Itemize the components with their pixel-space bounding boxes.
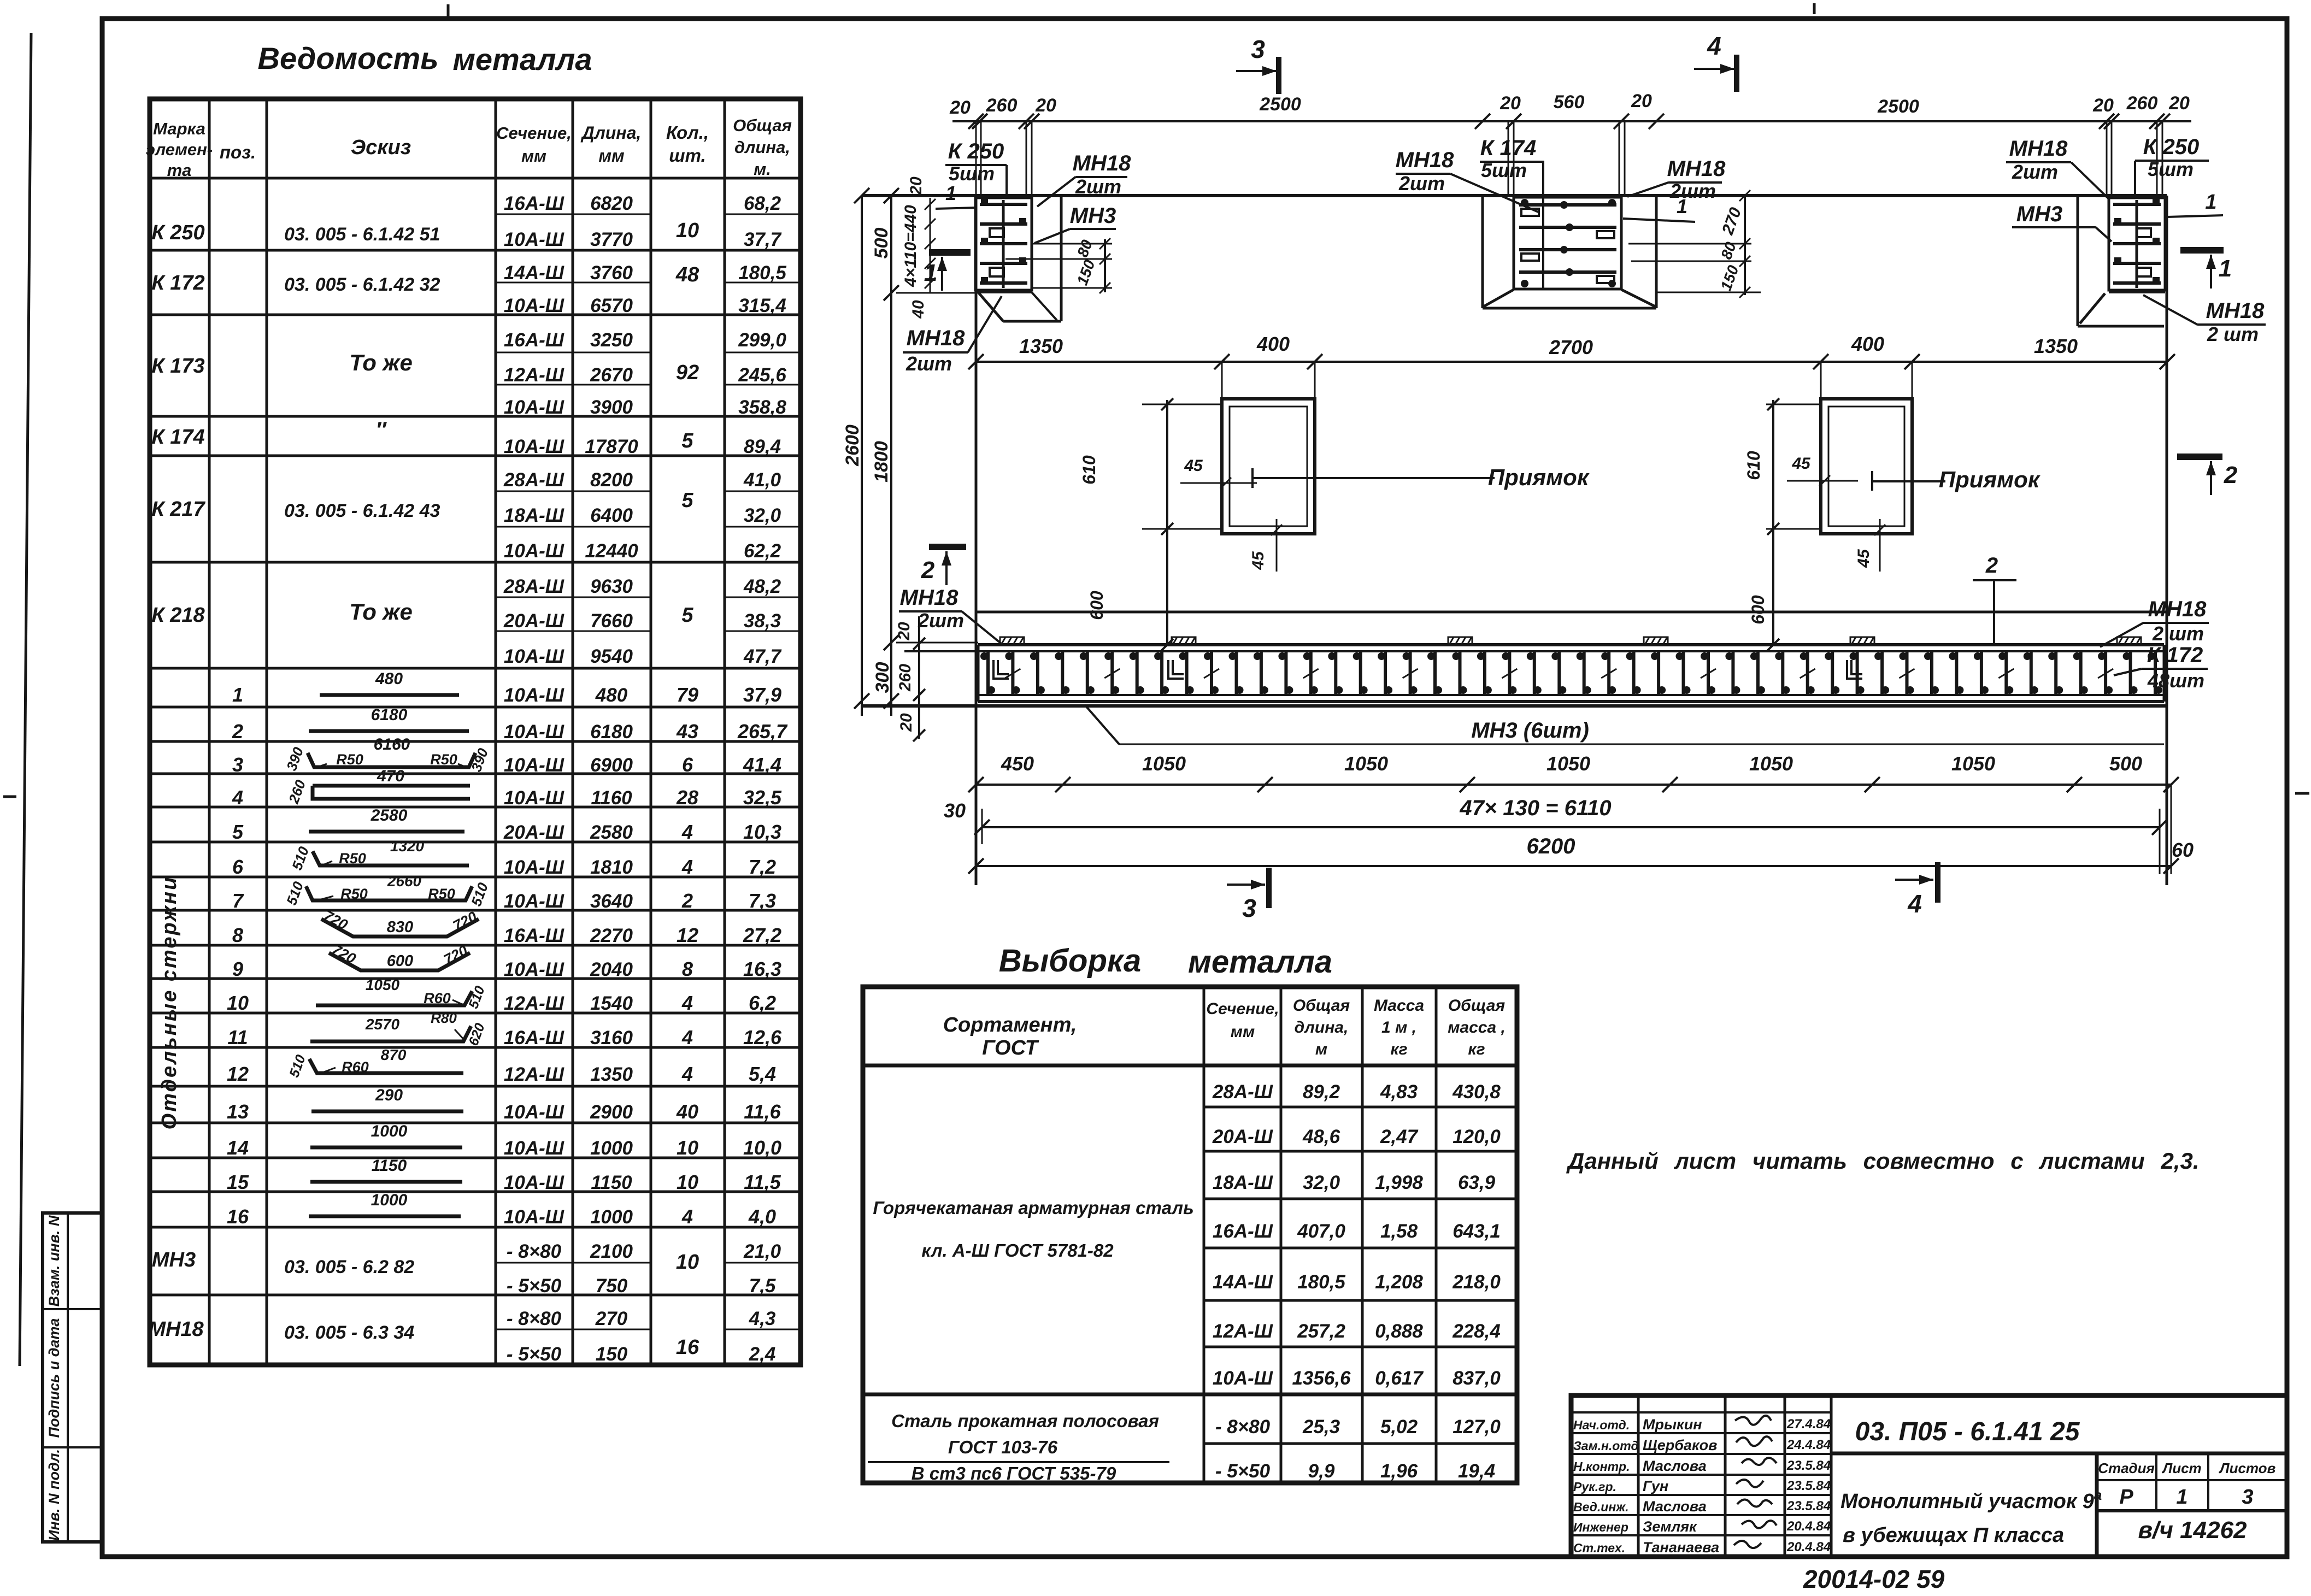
svg-text:элемен-: элемен-	[146, 140, 213, 159]
svg-text:358,8: 358,8	[738, 397, 786, 418]
svg-text:1,998: 1,998	[1375, 1172, 1423, 1193]
svg-text:4: 4	[1707, 32, 1721, 60]
svg-text:4: 4	[681, 992, 693, 1014]
dim label 2700	[1549, 336, 1593, 358]
svg-text:Эскиз: Эскиз	[351, 136, 411, 159]
svg-text:03. 005 - 6.1.42 32: 03. 005 - 6.1.42 32	[284, 274, 440, 295]
svg-text:23.5.84: 23.5.84	[1786, 1458, 1831, 1473]
svg-text:МН3: МН3	[152, 1248, 196, 1271]
svg-text:Ст.тех.: Ст.тех.	[1573, 1541, 1625, 1555]
svg-text:Инженер: Инженер	[1573, 1520, 1628, 1534]
svg-text:5шт: 5шт	[949, 162, 995, 185]
svg-text:R50: R50	[340, 886, 368, 902]
svg-text:″: ″	[375, 418, 387, 442]
Выборка row 16А-Ш	[1213, 1221, 1501, 1242]
title block division line x=3837	[2095, 1453, 2099, 1557]
svg-text:2900: 2900	[590, 1102, 633, 1123]
svg-text:1,58: 1,58	[1380, 1221, 1418, 1242]
dim label 20 (c2)	[1631, 91, 1652, 111]
central cage К174 outer	[1483, 196, 1656, 308]
svg-text:10А-Ш: 10А-Ш	[504, 1102, 564, 1123]
svg-text:Гун: Гун	[1643, 1478, 1668, 1494]
row поз.3 data	[232, 753, 781, 776]
slab inner line above strip	[976, 611, 2167, 614]
central cage К174 body	[1514, 197, 1621, 289]
Выборка row 18А-Ш	[1213, 1172, 1496, 1193]
dim label 20 (left2)	[1035, 95, 1056, 116]
svg-text:390: 390	[283, 745, 307, 773]
svg-text:28А-Ш: 28А-Ш	[503, 469, 564, 491]
svg-text:м.: м.	[754, 160, 771, 179]
svg-text:20: 20	[1631, 91, 1652, 111]
svg-text:290: 290	[375, 1086, 403, 1104]
callout 1 поз center	[1623, 195, 1695, 222]
svg-text:Общая: Общая	[1293, 997, 1350, 1015]
svg-text:12: 12	[677, 924, 698, 946]
callout 1 поз right	[2167, 191, 2223, 217]
svg-text:2: 2	[232, 720, 243, 743]
svg-text:5: 5	[681, 429, 693, 452]
svg-text:62,2: 62,2	[744, 540, 781, 562]
svg-text:Горячекатаная арматурная ста: Горячекатаная арматурная сталь	[873, 1198, 1193, 1218]
svg-text:Длина,: Длина,	[580, 123, 642, 143]
svg-text:150: 150	[1718, 263, 1742, 293]
svg-text:МН18: МН18	[148, 1318, 204, 1341]
Выборка row - 5x50	[1215, 1460, 1495, 1482]
sidebar label Подпись и дата	[46, 1318, 62, 1438]
svg-text:2 шт: 2 шт	[2207, 323, 2259, 345]
svg-text:5,02: 5,02	[1380, 1416, 1418, 1438]
svg-text:20: 20	[895, 622, 913, 641]
svg-text:837,0: 837,0	[1453, 1368, 1501, 1389]
dim label 560	[1554, 92, 1585, 113]
svg-text:510: 510	[466, 984, 488, 1011]
svg-text:1: 1	[1677, 195, 1687, 217]
svg-text:47× 130 = 6110: 47× 130 = 6110	[1459, 796, 1611, 820]
svg-text:10,0: 10,0	[743, 1136, 781, 1159]
svg-text:68,2: 68,2	[744, 193, 781, 214]
svg-text:Стадия: Стадия	[2098, 1460, 2155, 1476]
svg-text:80: 80	[1074, 237, 1096, 259]
svg-text:2580: 2580	[590, 822, 633, 843]
svg-text:4: 4	[681, 1063, 693, 1085]
callout МН3 left	[1034, 204, 1116, 243]
slab right edge	[2166, 196, 2168, 885]
svg-text:2шт: 2шт	[1398, 172, 1445, 195]
приямок 1 dim 45 top	[1180, 457, 1257, 488]
dim label 400 left	[1256, 333, 1290, 355]
svg-text:12А-Ш: 12А-Ш	[504, 1064, 564, 1085]
svg-text:16А-Ш: 16А-Ш	[1213, 1221, 1273, 1242]
svg-text:10А-Ш: 10А-Ш	[504, 857, 564, 878]
callout К172 48шт	[2114, 643, 2208, 692]
svg-text:Марка: Марка	[153, 119, 205, 138]
svg-text:2660: 2660	[387, 873, 422, 890]
svg-text:4: 4	[681, 1205, 693, 1228]
svg-text:10А-Ш: 10А-Ш	[504, 397, 564, 418]
svg-text:Тананаева: Тананаева	[1643, 1539, 1719, 1556]
svg-text:длина,: длина,	[1295, 1018, 1349, 1036]
svg-text:12А-Ш: 12А-Ш	[1213, 1321, 1273, 1342]
svg-text:10А-Ш: 10А-Ш	[504, 1138, 564, 1159]
row поз.5 data	[232, 821, 781, 843]
svg-text:16А-Ш: 16А-Ш	[504, 1027, 564, 1049]
row К218	[151, 576, 781, 667]
row поз.12 data	[227, 1063, 776, 1085]
svg-text:МН18: МН18	[1667, 157, 1726, 181]
svg-text:11,5: 11,5	[744, 1171, 781, 1193]
svg-text:89,2: 89,2	[1303, 1081, 1340, 1103]
svg-text:40: 40	[676, 1100, 698, 1123]
svg-text:1160: 1160	[591, 787, 632, 809]
row поз.10 data	[227, 992, 776, 1014]
svg-text:3: 3	[232, 753, 243, 776]
svg-text:Сечение,: Сечение,	[496, 123, 572, 143]
bottom dim labels row1	[1001, 752, 2142, 775]
svg-text:510: 510	[283, 879, 307, 908]
svg-text:18А-Ш: 18А-Ш	[504, 505, 564, 526]
svg-text:4,83: 4,83	[1380, 1081, 1418, 1103]
svg-text:2,4: 2,4	[749, 1344, 776, 1365]
svg-text:407,0: 407,0	[1297, 1221, 1345, 1242]
row поз.9 data	[232, 958, 781, 980]
svg-text:масса ,: масса ,	[1448, 1018, 1506, 1036]
эскиз поз.8 трапеция 720-830-720	[321, 907, 479, 937]
section marker 1 right	[2180, 250, 2232, 288]
svg-text:2600: 2600	[842, 425, 863, 467]
svg-text:1320: 1320	[390, 838, 425, 855]
svg-text:11: 11	[227, 1026, 248, 1049]
приямок 1 dim 610/600	[1079, 398, 1222, 651]
svg-text:4: 4	[681, 821, 693, 843]
svg-text:R80: R80	[431, 1010, 457, 1026]
svg-text:3160: 3160	[590, 1027, 633, 1049]
svg-text:1000: 1000	[590, 1206, 633, 1228]
svg-text:24.4.84: 24.4.84	[1786, 1438, 1831, 1452]
callout 1 поз left	[936, 182, 977, 209]
svg-text:11,6: 11,6	[744, 1100, 781, 1123]
svg-text:500: 500	[2109, 752, 2142, 775]
svg-text:265,7: 265,7	[737, 720, 788, 743]
svg-text:5,4: 5,4	[749, 1063, 776, 1085]
svg-text:20А-Ш: 20А-Ш	[1212, 1126, 1273, 1147]
svg-text:23.5.84: 23.5.84	[1786, 1479, 1831, 1493]
svg-text:шт.: шт.	[669, 145, 705, 166]
svg-text:45: 45	[1184, 457, 1203, 475]
svg-text:МН3: МН3	[2016, 202, 2062, 226]
svg-text:5: 5	[681, 604, 693, 627]
svg-text:270: 270	[1719, 205, 1745, 238]
callout МН3 6шт	[1085, 705, 2164, 744]
svg-text:48,2: 48,2	[743, 576, 781, 597]
svg-text:14А-Ш: 14А-Ш	[504, 262, 564, 284]
приямок 1 outer	[1222, 399, 1315, 534]
svg-text:20.4.84: 20.4.84	[1786, 1540, 1831, 1554]
svg-text:7,5: 7,5	[749, 1275, 776, 1297]
svg-text:180,5: 180,5	[1297, 1271, 1345, 1293]
registration mark right edge	[2295, 792, 2309, 795]
section marker 1 left	[924, 252, 971, 291]
svg-text:1000: 1000	[371, 1191, 408, 1209]
slab left edge	[975, 196, 978, 885]
svg-text:1540: 1540	[590, 993, 633, 1014]
registration mark top-left	[447, 4, 450, 16]
svg-text:кг: кг	[1390, 1040, 1407, 1058]
dim 270-80-150 center	[1628, 190, 1761, 298]
svg-text:0,617: 0,617	[1375, 1368, 1424, 1389]
svg-text:10А-Ш: 10А-Ш	[504, 755, 564, 776]
cage left bottom line	[975, 291, 1032, 293]
svg-text:560: 560	[1554, 92, 1585, 113]
svg-text:610: 610	[1744, 451, 1763, 480]
svg-text:Общая: Общая	[733, 116, 792, 135]
svg-text:14: 14	[227, 1136, 249, 1159]
svg-text:150: 150	[1074, 257, 1098, 287]
slab bottom edge	[862, 704, 2167, 708]
эскиз поз.5 прямой стержень 2580	[309, 806, 464, 832]
strip МН3 bent plates	[993, 660, 1862, 679]
svg-text:2: 2	[921, 557, 935, 584]
svg-text:Приямок: Приямок	[1939, 467, 2040, 492]
callout МН18 2шт top-right	[2006, 137, 2109, 199]
svg-text:299,0: 299,0	[738, 329, 786, 351]
svg-text:Отдельные стержни: Отдельные стержни	[158, 876, 181, 1130]
svg-text:20: 20	[907, 176, 925, 196]
svg-text:45: 45	[1249, 551, 1267, 570]
svg-text:2700: 2700	[1549, 336, 1593, 358]
svg-text:10А-Ш: 10А-Ш	[504, 685, 564, 706]
dim label 1350 right	[2034, 335, 2078, 357]
svg-text:К 250: К 250	[151, 221, 204, 244]
svg-text:16А-Ш: 16А-Ш	[504, 925, 564, 946]
svg-text:2: 2	[2224, 462, 2238, 488]
svg-text:Взам. инв. N: Взам. инв. N	[46, 1215, 62, 1306]
svg-text:7: 7	[232, 890, 244, 912]
label Приямок 2	[1872, 467, 2040, 492]
svg-text:260: 260	[896, 664, 914, 692]
svg-text:37,7: 37,7	[744, 229, 782, 250]
svg-text:643,1: 643,1	[1453, 1221, 1501, 1242]
strip rungs К172	[980, 651, 2162, 695]
svg-text:8200: 8200	[590, 469, 633, 491]
svg-text:16А-Ш: 16А-Ш	[504, 329, 564, 351]
svg-text:1050: 1050	[1951, 752, 1995, 775]
svg-text:1050: 1050	[1344, 752, 1388, 775]
svg-text:6570: 6570	[590, 295, 633, 316]
svg-text:9540: 9540	[590, 646, 633, 667]
row поз.14 data	[227, 1136, 781, 1159]
svg-text:в убежищах П класса: в убежищах П класса	[1843, 1524, 2064, 1547]
svg-text:То же: То же	[349, 350, 413, 375]
svg-text:260: 260	[285, 778, 309, 806]
svg-text:Сталь прокатная полосовая: Сталь прокатная полосовая	[891, 1411, 1159, 1431]
svg-text:510: 510	[468, 880, 491, 909]
row поз.2 data	[232, 720, 788, 743]
эскиз поз.7 стержень с двумя отгибами 2660	[283, 873, 491, 908]
dim 80-150 cage left	[1005, 237, 1112, 293]
svg-text:7,2: 7,2	[749, 856, 776, 878]
row поз.15 data	[227, 1171, 781, 1193]
callout К250 5шт right	[2135, 135, 2209, 197]
slab top edge	[862, 194, 2167, 197]
svg-text:8: 8	[232, 924, 243, 946]
svg-text:2 шт: 2 шт	[2152, 622, 2204, 645]
svg-text:270: 270	[595, 1308, 628, 1329]
svg-text:10: 10	[677, 1171, 698, 1193]
svg-text:1050: 1050	[1142, 752, 1186, 775]
vert dim chain 500-1800-300	[871, 188, 899, 716]
svg-text:480: 480	[595, 685, 628, 706]
svg-text:мм: мм	[521, 146, 546, 166]
title Выборка металла	[999, 943, 1332, 980]
svg-text:1050: 1050	[1546, 752, 1590, 775]
strip bottom rail	[978, 695, 2164, 702]
title block staff row Ст.тех. Тананаева	[1573, 1539, 1831, 1556]
svg-text:4,3: 4,3	[749, 1308, 776, 1329]
эскиз поз.9 трапеция 720-600-720	[329, 941, 471, 970]
svg-text:6: 6	[682, 753, 693, 776]
svg-text:Мрыкин: Мрыкин	[1643, 1416, 1702, 1433]
svg-text:1: 1	[2205, 191, 2216, 214]
title block staff row lines	[1571, 1412, 1831, 1535]
svg-text:10А-Ш: 10А-Ш	[504, 540, 564, 562]
эскиз поз.1 прямой стержень 480	[320, 670, 459, 695]
svg-text:120,0: 120,0	[1453, 1126, 1501, 1147]
svg-text:R60: R60	[424, 990, 451, 1006]
svg-text:600: 600	[387, 952, 413, 970]
extension lines приямок to dim2	[1222, 362, 1912, 405]
svg-text:9: 9	[232, 958, 243, 980]
svg-text:1: 1	[2176, 1486, 2187, 1509]
svg-text:7,3: 7,3	[749, 890, 776, 912]
row поз.4 data	[232, 786, 782, 809]
svg-text:16: 16	[676, 1336, 699, 1359]
svg-text:2: 2	[681, 890, 693, 912]
svg-text:390: 390	[468, 746, 491, 774]
svg-text:12А-Ш: 12А-Ш	[504, 993, 564, 1014]
svg-text:32,5: 32,5	[743, 786, 782, 809]
svg-text:- 5×50: - 5×50	[1215, 1460, 1271, 1482]
svg-text:03. 005 - 6.1.42 43: 03. 005 - 6.1.42 43	[284, 500, 440, 521]
svg-text:ГОСТ: ГОСТ	[982, 1036, 1039, 1059]
dim label 260 (right)	[2126, 93, 2158, 114]
эскиз поз.15 прямой стержень 1150	[310, 1157, 462, 1182]
svg-text:R50: R50	[339, 850, 366, 867]
svg-text:- 5×50: - 5×50	[507, 1344, 562, 1365]
dimension line 2	[968, 354, 2175, 369]
эскиз поз.13 прямой стержень 290	[311, 1086, 463, 1111]
cage right bottom line	[2109, 291, 2165, 293]
svg-text:4: 4	[1907, 890, 1922, 918]
svg-text:К 173: К 173	[151, 355, 204, 378]
svg-text:16,3: 16,3	[743, 958, 781, 980]
svg-text:4,0: 4,0	[748, 1205, 776, 1228]
title block outer box	[1571, 1395, 2287, 1557]
svg-text:1150: 1150	[591, 1172, 632, 1193]
svg-text:1 м ,: 1 м ,	[1381, 1018, 1416, 1036]
svg-text:25,3: 25,3	[1302, 1416, 1340, 1438]
dim label 20 (r1)	[2092, 95, 2114, 116]
приямок 2 dim 610/600	[1744, 398, 1821, 651]
svg-text:10,3: 10,3	[743, 821, 781, 843]
svg-text:89,4: 89,4	[744, 436, 781, 457]
svg-text:Лист: Лист	[2161, 1460, 2201, 1476]
svg-text:Масса: Масса	[1374, 997, 1424, 1015]
svg-text:218,0: 218,0	[1452, 1271, 1501, 1293]
column cage К250 left	[975, 198, 1032, 290]
svg-text:10А-Ш: 10А-Ш	[504, 891, 564, 912]
row К173	[151, 329, 786, 418]
row МН3	[152, 1241, 781, 1297]
svg-text:600: 600	[1087, 591, 1107, 620]
Выборка row 20А-Ш	[1212, 1126, 1501, 1147]
svg-text:10А-Ш: 10А-Ш	[504, 436, 564, 457]
svg-text:R50: R50	[430, 751, 457, 768]
dim label 20 (left)	[949, 97, 971, 118]
dim label 400 right	[1851, 333, 1884, 355]
svg-text:48шт: 48шт	[2147, 669, 2204, 692]
эскиз поз.16 прямой стержень 1000	[309, 1191, 461, 1216]
callout МН18 2шт strip-left	[899, 586, 1003, 645]
svg-text:16А-Ш: 16А-Ш	[504, 193, 564, 214]
svg-text:41,0: 41,0	[743, 469, 781, 491]
svg-text:12440: 12440	[585, 540, 638, 562]
extension line y=536	[896, 292, 976, 294]
svg-text:0,888: 0,888	[1375, 1321, 1423, 1342]
svg-text:28А-Ш: 28А-Ш	[1212, 1081, 1273, 1103]
svg-text:3770: 3770	[590, 229, 633, 250]
svg-text:10А-Ш: 10А-Ш	[1213, 1368, 1273, 1389]
sidebar box	[43, 1213, 102, 1542]
extension lines central cage to top dim	[1508, 121, 1625, 196]
sidebar divider column	[67, 1213, 69, 1542]
svg-text:1350: 1350	[2034, 335, 2078, 357]
title block org в/ч 14262	[2138, 1517, 2247, 1544]
svg-text:10А-Ш: 10А-Ш	[504, 721, 564, 743]
row К250	[151, 193, 781, 250]
table Ведомость row lines	[150, 178, 801, 1295]
group label Отдельные стержни	[158, 876, 181, 1130]
svg-text:260: 260	[2126, 93, 2158, 114]
эскиз поз.12 стержень 870 с отгибом R60	[286, 1046, 463, 1080]
эскиз поз.11 стержень 2570 с отгибом R80	[310, 1010, 488, 1048]
callout МН18 2шт top-left	[1037, 151, 1131, 207]
bottom dim line 47x130=6110	[944, 796, 2194, 874]
svg-text:Сортамент,: Сортамент,	[943, 1014, 1077, 1036]
column cage К250 right	[2109, 198, 2165, 290]
svg-text:6900: 6900	[590, 755, 633, 776]
svg-text:Данный лист читать совм: Данный лист читать совместно с листами 2…	[1566, 1148, 2200, 1174]
svg-text:К 174: К 174	[1480, 136, 1536, 160]
svg-text:28: 28	[676, 786, 698, 809]
svg-text:Кол.,: Кол.,	[666, 122, 709, 143]
svg-text:Выборка: Выборка	[999, 943, 1142, 979]
svg-text:2шт: 2шт	[918, 609, 964, 632]
svg-text:R50: R50	[428, 886, 455, 902]
svg-text:МН18: МН18	[900, 586, 958, 610]
cage left outer boundary	[978, 196, 1061, 321]
svg-text:510: 510	[286, 1053, 309, 1080]
svg-text:К 218: К 218	[151, 604, 205, 627]
title block стадия texts	[2098, 1460, 2275, 1509]
svg-text:5: 5	[681, 489, 693, 512]
приямок 1 dim 45 bottom	[1249, 519, 1282, 572]
svg-text:мм: мм	[598, 146, 625, 166]
row поз.6 data	[232, 856, 776, 878]
приямок 2 inner	[1828, 407, 1904, 526]
svg-text:4: 4	[232, 786, 243, 809]
svg-text:620: 620	[466, 1021, 488, 1048]
